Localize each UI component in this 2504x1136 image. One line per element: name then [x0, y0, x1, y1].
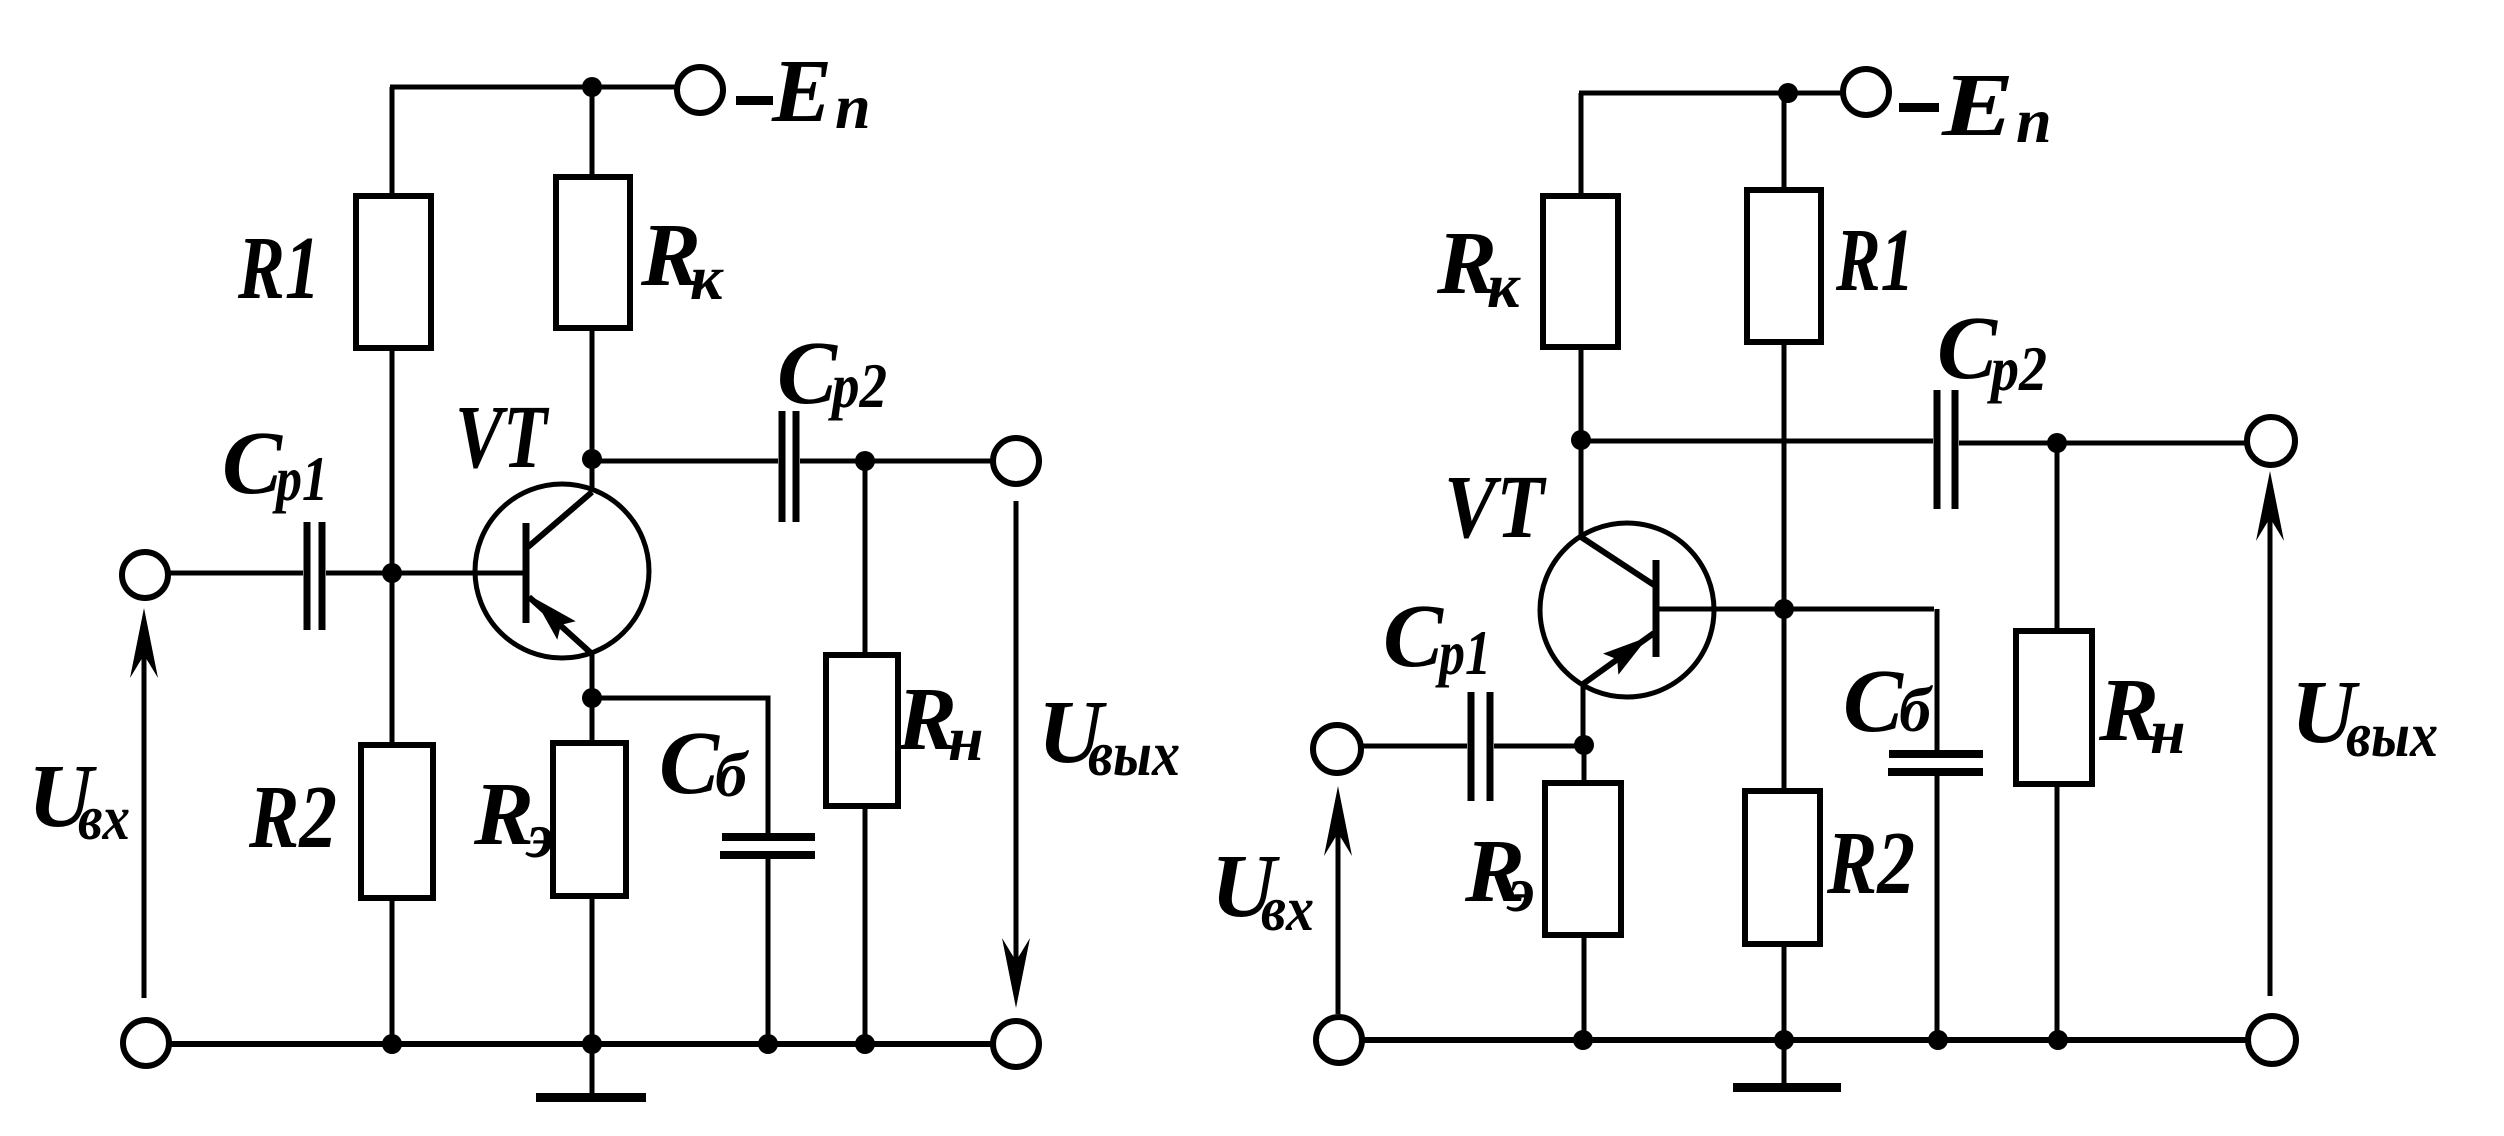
svg-text:p2: p2	[1987, 333, 2047, 404]
wire Rk bottom / collector right	[1579, 347, 1584, 440]
node emitter junction left	[582, 688, 602, 708]
arrow Uvh right (up)	[1324, 786, 1352, 1014]
resistor Rn left	[826, 655, 898, 806]
wire R2 bottom right	[1782, 944, 1787, 1040]
svg-text:б: б	[715, 739, 750, 810]
svg-text:C: C	[777, 324, 838, 423]
svg-text:p1: p1	[272, 443, 328, 514]
wire R1 top right	[1782, 93, 1787, 192]
terminal input bottom left	[123, 1020, 169, 1066]
label -Ep left	[736, 42, 871, 142]
resistor Rk left	[556, 177, 630, 328]
label Rn right	[2098, 661, 2186, 767]
label Cp2 left	[777, 324, 887, 423]
resistor R2	[361, 745, 433, 898]
label Rk right	[1436, 214, 1521, 321]
svg-text:вых: вых	[2346, 699, 2438, 770]
arrow Uvh left (up)	[130, 608, 158, 998]
wire R2 bottom	[390, 898, 395, 1044]
resistor Re left	[553, 743, 626, 896]
svg-text:C: C	[659, 714, 720, 813]
capacitor Cp1 right	[1471, 692, 1490, 801]
svg-text:э: э	[1506, 854, 1535, 925]
svg-text:VT: VT	[1444, 458, 1547, 557]
arrow Uvyh left (down)	[1002, 501, 1030, 1008]
node Rn / bottom rail right	[2048, 1030, 2068, 1050]
node R2 / bottom rail	[382, 1034, 402, 1054]
ground right	[1733, 1040, 1841, 1092]
wire collector to Cp2	[592, 459, 778, 464]
terminal output top right-circuit	[2247, 417, 2295, 465]
node Cb / bottom rail	[758, 1034, 778, 1054]
capacitor Cb right	[1888, 754, 1983, 772]
node Rn / bottom rail	[855, 1034, 875, 1054]
node base junction left	[382, 563, 402, 583]
label -Ep right	[1899, 56, 2052, 156]
terminal output bottom left-circuit	[993, 1021, 1039, 1067]
wire Rk top	[590, 87, 595, 179]
label Rk left	[640, 206, 724, 313]
wire top rail right	[1579, 91, 1844, 96]
terminal input right	[1313, 725, 1361, 773]
svg-text:p1: p1	[1435, 617, 1491, 688]
wire Cp2 to output	[800, 459, 994, 464]
transistor VT right	[1540, 440, 1714, 745]
capacitor Cp2 right	[1937, 390, 1955, 509]
transistor VT left	[475, 459, 649, 698]
node Cb / bottom rail right	[1928, 1030, 1948, 1050]
svg-text:R2: R2	[1826, 814, 1915, 913]
capacitor Cp1 left	[307, 522, 322, 630]
wire Cp2 to output right	[1959, 441, 2249, 446]
wire Cp1 to emitter node right	[1494, 744, 1584, 749]
wire Rk top right	[1579, 93, 1584, 198]
svg-text:R2: R2	[248, 768, 337, 867]
wire bottom rail left	[169, 1041, 994, 1047]
capacitor Cb left	[720, 837, 815, 855]
wire top rail left	[390, 85, 677, 90]
svg-text:н: н	[948, 703, 984, 774]
wire bottom rail right	[1363, 1037, 2248, 1043]
label Re right	[1464, 822, 1535, 925]
wire input to Cp1	[167, 571, 303, 576]
node collector junction right	[1571, 430, 1591, 450]
node junction top rail / Rk	[582, 77, 602, 97]
svg-text:C: C	[1937, 299, 1998, 398]
svg-text:E: E	[771, 42, 832, 141]
wire Cp1 to base	[326, 571, 527, 576]
svg-text:E: E	[1941, 56, 2014, 155]
label Cb right	[1843, 652, 1934, 751]
label Cp2 right	[1937, 299, 2047, 404]
ground left	[536, 1044, 646, 1102]
node Rn junction right	[2047, 433, 2067, 453]
node Re / bottom rail right	[1573, 1030, 1593, 1050]
label Uvh left	[28, 747, 130, 853]
label Uvyh left	[1038, 683, 1180, 789]
wire Rn top	[863, 461, 868, 657]
node Rn junction top	[855, 451, 875, 471]
resistor R2 right	[1745, 791, 1820, 944]
svg-text:э: э	[525, 800, 554, 871]
wire Cb down right	[1935, 609, 1940, 751]
svg-text:вх: вх	[78, 782, 130, 853]
svg-text:вх: вх	[1261, 873, 1314, 944]
terminal input left	[122, 552, 168, 598]
wire Rn top right	[2055, 443, 2060, 633]
svg-text:C: C	[222, 414, 283, 513]
node Re / bottom rail	[582, 1034, 602, 1054]
svg-text:н: н	[2150, 696, 2186, 767]
wire R1 bottom to base right	[1782, 342, 1787, 609]
wire R1 top	[390, 87, 395, 198]
wire base to Cb right	[1656, 607, 1934, 612]
label Uvyh right	[2291, 663, 2438, 770]
terminal input bottom right	[1316, 1017, 1362, 1063]
wire Rn bottom	[863, 806, 868, 1044]
label Uvh right	[1211, 837, 1314, 944]
wire Cb bottom	[766, 859, 771, 1044]
wire input to Cp1 right	[1360, 744, 1467, 749]
svg-text:R: R	[473, 765, 534, 864]
wire emitter to Cb left	[592, 698, 768, 834]
resistor R1	[356, 196, 431, 348]
wire emitter to Re	[590, 698, 595, 745]
resistor Rk right	[1543, 196, 1618, 347]
node base junction right	[1774, 599, 1794, 619]
label Cp1 left	[222, 414, 328, 514]
svg-text:VT: VT	[455, 388, 549, 487]
svg-text:p2: p2	[828, 350, 887, 421]
terminal output top left-circuit	[993, 438, 1039, 484]
wire R2 top right	[1782, 609, 1787, 793]
svg-text:к: к	[690, 242, 724, 313]
svg-text:R1: R1	[237, 219, 320, 318]
arrow Uvyh right (up)	[2256, 471, 2284, 996]
svg-text:C: C	[1843, 652, 1904, 751]
terminal output bottom right-circuit	[2248, 1016, 2296, 1064]
svg-text:п: п	[2016, 85, 2052, 156]
wire Re top right	[1582, 745, 1587, 785]
resistor Re right	[1545, 783, 1621, 935]
wire Rk bottom / collector	[590, 328, 595, 459]
node R2 / bottom rail right	[1774, 1030, 1794, 1050]
svg-text:б: б	[1899, 674, 1934, 745]
svg-text:R1: R1	[1835, 211, 1914, 310]
terminal -Ep right	[1843, 69, 1889, 115]
label Re left	[473, 765, 554, 871]
wire R2 top	[390, 573, 395, 747]
svg-text:п: п	[835, 71, 871, 142]
terminal -Ep left	[677, 67, 723, 113]
label Cp1 right	[1383, 587, 1491, 688]
label Cb left	[659, 714, 750, 813]
resistor Rn right	[2016, 631, 2092, 784]
capacitor Cp2 left	[782, 411, 796, 522]
wire Re bottom right	[1582, 935, 1587, 1040]
svg-text:C: C	[1383, 587, 1444, 686]
svg-text:вых: вых	[1088, 718, 1180, 789]
wire Re bottom	[590, 896, 595, 1044]
wire R1 bottom to base node	[390, 348, 395, 573]
label Rn left	[896, 670, 984, 774]
node emitter junction right	[1574, 735, 1594, 755]
wire Rn bottom right	[2055, 784, 2060, 1040]
resistor R1 right	[1747, 190, 1821, 342]
wire collector to Cp2 right	[1581, 439, 1933, 444]
node junction top rail right	[1778, 83, 1798, 103]
wire Cb bottom right	[1935, 776, 1940, 1040]
node collector junction left	[582, 449, 602, 469]
svg-text:к: к	[1487, 250, 1521, 321]
